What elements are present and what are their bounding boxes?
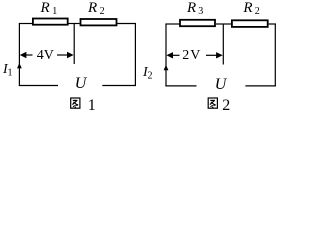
resistor R3 label bbox=[186, 0, 203, 17]
svg-text:2: 2 bbox=[100, 6, 105, 17]
voltage arrow left (4V) bbox=[20, 52, 33, 58]
wire between R3 and R2 bbox=[216, 23, 231, 25]
voltage arrow right (2V) bbox=[206, 52, 223, 58]
svg-text:2: 2 bbox=[148, 71, 153, 82]
svg-text:1: 1 bbox=[88, 97, 96, 113]
wire left vertical (figure 1) bbox=[18, 24, 20, 87]
svg-text:2: 2 bbox=[255, 6, 260, 17]
svg-text:1: 1 bbox=[8, 68, 13, 79]
current label I2 bbox=[142, 65, 153, 82]
wire right vertical (figure 2) bbox=[274, 24, 276, 87]
svg-text:U: U bbox=[215, 76, 228, 93]
svg-text:R: R bbox=[87, 0, 97, 16]
svg-text:3: 3 bbox=[198, 6, 203, 17]
wire left vertical (figure 2) bbox=[165, 24, 167, 86]
svg-text:R: R bbox=[40, 0, 50, 16]
wire bottom right segment (figure 2) bbox=[245, 85, 276, 87]
svg-text:2V: 2V bbox=[182, 48, 201, 63]
svg-text:2: 2 bbox=[222, 97, 230, 113]
wire from R2 to right corner bbox=[117, 23, 136, 25]
resistor R2 label (figure 2) bbox=[242, 0, 259, 17]
wire from R2 to right corner (figure 2) bbox=[269, 23, 276, 25]
node junction wire between R1 and R2 bbox=[73, 24, 75, 65]
wire top segment to R1 bbox=[19, 23, 33, 25]
resistor R1 bbox=[33, 19, 68, 25]
resistor R1 label bbox=[40, 0, 58, 17]
wire right vertical (figure 1) bbox=[134, 23, 136, 86]
wire between R1 and R2 bbox=[69, 23, 80, 25]
resistor R3 bbox=[180, 20, 215, 26]
wire bottom left segment (figure 1) bbox=[19, 85, 58, 87]
svg-text:R: R bbox=[186, 0, 196, 16]
resistor R2 label bbox=[87, 0, 105, 17]
current arrow I1 bbox=[17, 63, 22, 68]
current arrow I2 bbox=[164, 65, 169, 70]
voltage arrow right (4V) bbox=[57, 52, 74, 58]
svg-text:4V: 4V bbox=[37, 48, 54, 63]
current label I1 bbox=[2, 62, 13, 79]
svg-text:U: U bbox=[75, 75, 88, 92]
wire bottom left segment (figure 2) bbox=[165, 85, 196, 87]
caption figure 2 glyph tu bbox=[208, 98, 217, 108]
caption figure 1 glyph tu bbox=[71, 98, 80, 108]
wire top segment to R3 bbox=[165, 23, 179, 25]
voltage arrow left (2V) bbox=[166, 52, 179, 58]
svg-text:1: 1 bbox=[52, 6, 57, 17]
resistor R2 bbox=[81, 19, 117, 25]
resistor R2 (figure 2) bbox=[232, 20, 268, 27]
wire bottom right segment (figure 1) bbox=[102, 85, 136, 87]
svg-text:R: R bbox=[242, 0, 252, 16]
node junction wire between R3 and R2 bbox=[222, 24, 224, 65]
